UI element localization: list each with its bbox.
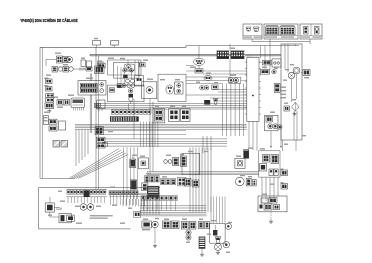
sensor cylinder (131, 160, 136, 167)
mid conn row a (145, 176, 149, 183)
wire bundle h7 (140, 210, 206, 212)
gnd rear (270, 219, 272, 221)
fusebox strip2 (67, 188, 107, 190)
wire rear feeds (261, 196, 263, 204)
strip box right (153, 109, 165, 123)
connector pair c (45, 103, 54, 109)
ground left (48, 109, 50, 111)
left label box (43, 116, 48, 125)
thermo comp (181, 156, 187, 167)
left switch hatch a (53, 141, 60, 148)
right small box (274, 83, 280, 92)
acc pair small (269, 169, 273, 176)
pickup circle (288, 72, 294, 78)
fuse label (90, 215, 113, 216)
relay circle b (87, 204, 94, 211)
wire starter drops (270, 131, 272, 146)
wire mid risers (123, 147, 125, 199)
conn oval pair (204, 75, 212, 80)
sidestand dark (131, 181, 136, 190)
starter button (124, 64, 135, 71)
rear box drop (270, 212, 272, 219)
gnd rectifier (294, 112, 296, 114)
fuel box (235, 158, 245, 168)
connector pair a (44, 78, 49, 79)
rectifier diamond (292, 102, 300, 111)
wire bundle horizontal mid (75, 123, 247, 125)
thermo pair (164, 160, 168, 164)
position lamp row (52, 67, 58, 73)
meter side box (97, 100, 106, 109)
handlebar box upper (114, 62, 139, 78)
wire diagonal bundle (69, 149, 119, 179)
legend box B fuse tables (264, 24, 298, 39)
gnd sensor (154, 244, 156, 246)
junction box right (281, 44, 302, 140)
harness dark strip (110, 116, 139, 121)
wire strip drops (140, 122, 142, 147)
rear conn a (261, 198, 268, 203)
wire acc drop (261, 177, 263, 196)
meter grid row 1 (80, 83, 97, 87)
gnd coil (201, 252, 203, 254)
chain dark comp (117, 85, 121, 88)
strip left box2 (95, 127, 103, 135)
oxygen circle (223, 242, 229, 248)
wire top bus (40, 46, 299, 48)
mid dark stack2 (147, 195, 159, 198)
connector pair b (44, 85, 49, 86)
fuel sender dark (244, 151, 249, 159)
wire bottom drop c (210, 197, 212, 224)
meter module (71, 98, 85, 108)
svg-text:YP400(S) 2004 SCHÉMA DE CÂBLAG: YP400(S) 2004 SCHÉMA DE CÂBLAGE (20, 16, 77, 23)
starter box (265, 115, 279, 131)
wire left col (95, 47, 97, 189)
connector pair d (97, 62, 104, 63)
fuse main (59, 214, 71, 223)
relay box frame (158, 74, 186, 101)
conn row b (181, 222, 188, 230)
sensor box b (86, 61, 91, 67)
wire mid col2 (149, 99, 151, 172)
wire verticals left low (75, 130, 77, 167)
legend box C relays (300, 24, 322, 39)
relay oval pair (166, 85, 174, 94)
acc conn 2 (271, 155, 279, 164)
wire h lower singles (96, 130, 186, 132)
chain wires (117, 66, 119, 84)
injector lower (215, 237, 221, 244)
strip small boxes (111, 110, 114, 114)
front connector (95, 66, 105, 74)
resistor inline (86, 67, 92, 71)
relay box low (142, 183, 148, 191)
dark square (204, 100, 210, 105)
diode pack (134, 211, 141, 217)
upper conn boxes (97, 137, 106, 142)
wire drop bundle a (140, 196, 142, 215)
cdi dark block (217, 51, 229, 59)
handlebar box lower (108, 85, 145, 102)
conn pair right (261, 69, 270, 74)
solenoid inner (213, 230, 217, 236)
wire bundle horizontal upper (96, 103, 247, 105)
wire right box stub (295, 44, 297, 46)
wire bundle h5 (147, 171, 259, 173)
right labels (280, 87, 286, 88)
left lower box (182, 153, 200, 174)
starter relay (142, 221, 151, 228)
edge comp a (281, 169, 284, 170)
sensor box mid (139, 158, 149, 169)
flasher relay (142, 82, 157, 99)
conn small (212, 85, 218, 89)
strip drops (67, 197, 69, 203)
wire right inner (284, 44, 286, 69)
wire drop bundle b (189, 148, 191, 213)
rear conn b (260, 205, 263, 209)
wire h8 (140, 205, 206, 207)
horn circles (186, 230, 191, 235)
thermo box (173, 158, 179, 166)
left switch hatch b (61, 141, 68, 148)
wire h6 (109, 192, 160, 194)
wire harness bus (90, 54, 281, 56)
legend box A connectors (243, 24, 262, 39)
magneto conn pair (263, 60, 272, 65)
strip box right2 (169, 109, 180, 122)
wire misc mid (186, 76, 229, 78)
micro labels (55, 53, 61, 54)
conn row c (198, 222, 203, 229)
accessory box (259, 151, 280, 177)
meter glyph b (100, 89, 104, 93)
ecu box (247, 58, 259, 122)
sensor circles (152, 221, 158, 227)
bulb front (126, 65, 131, 70)
wire frame bottom (40, 177, 75, 179)
sensor box a (81, 60, 86, 66)
solenoid box (210, 223, 225, 243)
wire mid col (133, 99, 135, 139)
flasher circle (236, 177, 245, 186)
chain box right (135, 76, 144, 87)
fusebox dark pin (84, 191, 90, 198)
magneto circle (293, 67, 300, 74)
strip left box (94, 103, 100, 107)
ecu pins left (245, 61, 247, 63)
acc conn 1 (263, 155, 270, 163)
center column box (108, 60, 142, 75)
chain column low (129, 89, 133, 93)
headlight connectors (57, 56, 63, 63)
gnd plug (217, 251, 219, 253)
right conn (303, 70, 310, 76)
wire legend drop (251, 39, 253, 42)
spark plug (215, 244, 222, 251)
ignition oval (194, 58, 205, 65)
mid conn row b (161, 179, 165, 185)
dimmer row (57, 100, 63, 106)
conn row a (163, 221, 171, 229)
bulb pair upper (123, 69, 127, 73)
wire bundle vertical center (222, 84, 224, 137)
starter circle out (278, 125, 282, 129)
lower strip drops (142, 201, 144, 211)
meter module pins (73, 108, 75, 111)
wire right col (252, 121, 254, 150)
rectifier wires (293, 111, 295, 140)
relay circle box (175, 82, 184, 94)
ecu pins right (259, 61, 261, 63)
left box conn pair a (185, 179, 192, 187)
chain pair small (109, 88, 114, 92)
rectifier conn (284, 106, 290, 111)
twin circle (200, 85, 205, 90)
meter grid row 2 (80, 88, 97, 92)
battery stubs (49, 197, 51, 203)
switch boxes (46, 94, 54, 98)
wire headlight (46, 59, 57, 61)
wire top drops (198, 46, 200, 59)
wire meter pair (89, 74, 91, 81)
strip box right3 (181, 109, 191, 122)
wire lamp feed (73, 68, 90, 70)
bulb pair mid (126, 79, 130, 83)
battery (45, 203, 54, 212)
relay circle a (80, 204, 87, 211)
conn chain row (117, 84, 122, 88)
ignition coil dark (199, 237, 206, 249)
left box conn pair b (193, 180, 200, 187)
pickup small box (272, 59, 281, 67)
mid conn row c (178, 177, 187, 186)
injector funnel (213, 99, 218, 105)
fusebox strip (67, 190, 70, 194)
wire bundle h3 (104, 138, 227, 140)
headlight bulb (67, 57, 73, 63)
wire top right drop (269, 46, 271, 70)
mid dark stack (147, 186, 159, 195)
meter connector box (78, 81, 106, 95)
meter glyph a (100, 83, 104, 87)
flasher glyphs (140, 63, 145, 67)
left cluster boxes (49, 119, 57, 124)
edge comp b (281, 182, 284, 183)
conn bottom pair (246, 178, 251, 186)
wire cdi drop (260, 46, 262, 59)
frame box 2 (39, 188, 161, 229)
strip right cells (109, 191, 112, 195)
rear box (258, 196, 287, 212)
acc box dark (260, 164, 267, 172)
twin circle box (229, 78, 234, 83)
wire mid verticals (202, 136, 204, 153)
connector top 1 (93, 41, 101, 45)
strip right drops (109, 195, 111, 206)
conn dark pair (195, 69, 203, 73)
lower conn strip (142, 196, 146, 201)
connector top 2 (111, 41, 119, 45)
wire frame left (39, 47, 41, 178)
kill switch dark (123, 75, 127, 79)
wire drops deep (122, 199, 124, 207)
coil wire (201, 249, 203, 252)
aux bulb (225, 223, 231, 229)
